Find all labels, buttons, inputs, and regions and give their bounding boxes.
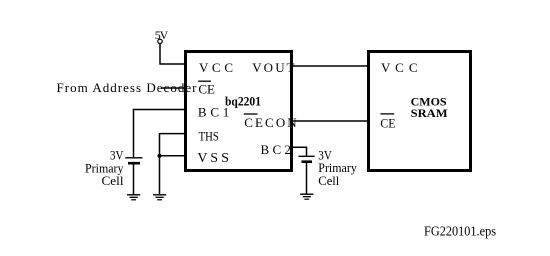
svg-text:V S S: V S S — [197, 151, 229, 166]
value label 3V Primary Cell (B1) — [85, 149, 124, 188]
wire U1 BC1 to battery B1 — [134, 110, 185, 158]
wire battery B1 to ground — [133, 163, 135, 194]
battery B2 negative plate — [302, 160, 313, 163]
ground symbol under B2 — [300, 194, 313, 199]
svg-text:THS: THS — [199, 128, 219, 143]
svg-text:bq2201: bq2201 — [225, 94, 261, 108]
battery B2 positive plate — [299, 155, 315, 157]
IC U2 CMOS SRAM body — [369, 52, 471, 171]
battery B1 negative plate — [128, 162, 140, 165]
pin label CE of U1 (with overline) — [198, 81, 215, 96]
svg-text:V C C: V C C — [381, 60, 418, 75]
svg-text:3V: 3V — [318, 148, 332, 162]
svg-text:B C 2: B C 2 — [261, 142, 292, 157]
svg-text:CE: CE — [380, 116, 395, 131]
wire battery B2 to ground — [306, 162, 308, 194]
svg-text:B C 1: B C 1 — [198, 105, 229, 120]
svg-text:CE: CE — [198, 82, 215, 97]
svg-text:V C C: V C C — [199, 60, 233, 75]
pin label CE of U2 (with overline) — [380, 114, 395, 131]
junction VSS/THS ground node — [157, 154, 161, 158]
svg-text:SRAM: SRAM — [411, 106, 448, 120]
wire U1 VSS to junction — [160, 155, 185, 157]
svg-text:Cell: Cell — [318, 174, 340, 188]
ground symbol under VSS rail — [153, 195, 166, 200]
svg-text:Cell: Cell — [102, 174, 125, 188]
IC U1 bq2201 body — [186, 52, 292, 171]
svg-text:C E C O N: C E C O N — [244, 115, 297, 130]
battery B1 positive plate — [125, 157, 142, 159]
value label 3V Primary Cell (B2) — [318, 148, 357, 188]
pin label CECON of U1 (overline on CE) — [244, 114, 298, 130]
node 5V supply terminal — [158, 39, 162, 43]
svg-text:FG220101.eps: FG220101.eps — [424, 225, 496, 240]
wire U1 CECON to U2 CE — [292, 120, 369, 122]
wire U1 THS to ground rail — [160, 134, 185, 195]
wire U1 BC2 to battery B2 — [292, 147, 307, 156]
wire U1 VOUT to U2 VCC — [292, 65, 369, 67]
svg-text:V O U T: V O U T — [252, 60, 294, 75]
wire 5V to U1 VCC pin — [160, 44, 185, 65]
ground symbol under B1 — [127, 195, 140, 200]
wire address decoder to U1 CE pin — [162, 87, 185, 89]
svg-text:5V: 5V — [155, 28, 169, 42]
part name CMOS SRAM — [411, 95, 448, 121]
